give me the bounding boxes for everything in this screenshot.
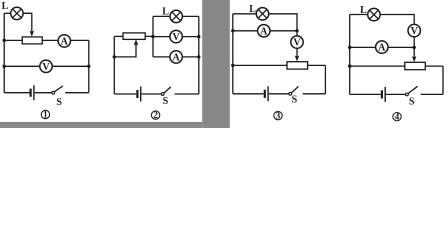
junction inner rail / voltmeter row bbox=[151, 35, 154, 38]
svg-text:2: 2 bbox=[153, 110, 158, 120]
gray divider band vertical bbox=[202, 0, 230, 128]
ammeter A3 bbox=[258, 25, 270, 38]
wire lamp to slider corner bbox=[23, 13, 32, 31]
outer left rail circuit 2 bbox=[113, 36, 115, 94]
wire left rail to voltmeter V1 bbox=[4, 65, 40, 67]
battery B4 bbox=[382, 87, 385, 102]
wire voltmeter V2 to right rail bbox=[182, 36, 199, 38]
wire left rail to lamp L3 bbox=[233, 13, 256, 15]
voltmeter V3 bbox=[291, 36, 303, 49]
wire top-left from lamp to left rail bbox=[4, 12, 11, 14]
slider arrow of rheostat R4 bbox=[412, 56, 416, 62]
voltmeter V2 bbox=[170, 30, 182, 43]
svg-text:A: A bbox=[260, 26, 268, 37]
wire left rail to rheostat R3 bbox=[233, 64, 287, 66]
junction right rail / ammeter row bbox=[197, 55, 200, 58]
label circled 2 bbox=[151, 110, 159, 120]
svg-text:V: V bbox=[42, 62, 50, 73]
slider arrow of rheostat R3 bbox=[295, 56, 299, 62]
rheostat R3 bbox=[287, 62, 308, 69]
junction left rail / rheostat row bbox=[2, 39, 5, 42]
junction outer rail / slider bbox=[113, 55, 116, 58]
svg-text:3: 3 bbox=[276, 111, 281, 121]
right rail circuit 3 bbox=[324, 65, 326, 93]
wire switch S1 to right rail bbox=[65, 92, 89, 94]
wire bottom left to battery B4 bbox=[350, 93, 381, 95]
svg-text:S: S bbox=[163, 96, 169, 107]
wire rheostat R2 to parallel block bbox=[145, 35, 153, 37]
junction voltmeter/ammeter/slider node bbox=[413, 46, 416, 49]
wire left rail to rheostat R4 bbox=[350, 65, 405, 67]
svg-text:V: V bbox=[411, 26, 419, 37]
left rail circuit 4 bbox=[349, 15, 351, 95]
junction lamp/ammeter/voltmeter node bbox=[295, 29, 298, 32]
right rail circuit 1 bbox=[88, 40, 90, 92]
junction left rail / voltmeter row bbox=[2, 65, 5, 68]
wire battery to switch S1 bbox=[35, 92, 52, 94]
wire switch S3 to right rail bbox=[303, 93, 326, 95]
battery B3 bbox=[265, 86, 268, 101]
left rail circuit 1 bbox=[3, 13, 5, 92]
wire voltmeter V3 to slider arrow bbox=[296, 48, 298, 56]
ammeter A1 bbox=[58, 35, 70, 48]
wire ammeter A1 to right rail bbox=[71, 39, 89, 41]
lamp L1 bbox=[11, 7, 23, 19]
lamp L2 bbox=[170, 10, 182, 22]
wire rheostat R3 to right rail bbox=[308, 64, 326, 66]
switch S2 bbox=[161, 87, 171, 96]
wire left rail to lamp L4 bbox=[350, 14, 368, 16]
svg-text:4: 4 bbox=[395, 112, 400, 122]
wire ammeter A3 to junction bbox=[270, 30, 297, 32]
lamp L3 bbox=[256, 8, 268, 20]
svg-text:V: V bbox=[293, 38, 301, 49]
svg-text:A: A bbox=[61, 37, 69, 48]
svg-text:S: S bbox=[56, 97, 62, 108]
inner left rail circuit 2 bbox=[152, 16, 154, 57]
svg-text:S: S bbox=[409, 96, 415, 107]
wire battery B2 to switch S2 bbox=[142, 93, 162, 95]
gray band bottom-left darker top edge bbox=[0, 122, 202, 123]
slider wire of rheostat R2 bbox=[114, 45, 136, 57]
wire ammeter A4 to junction bbox=[388, 46, 414, 48]
rheostat R4 bbox=[405, 62, 426, 69]
wire rheostat R4 to right rail bbox=[425, 65, 443, 67]
wire lamp L4 to right corner and down to voltmeter V4 bbox=[380, 15, 414, 25]
switch S1 bbox=[52, 86, 63, 94]
wire to ammeter A2 bbox=[153, 56, 170, 58]
wire left rail to lamp L2 bbox=[153, 15, 170, 17]
junction left rail / ammeter row bbox=[348, 46, 351, 49]
wire left rail to ammeter A3 bbox=[233, 30, 258, 32]
wire rheostat R2 left terminal to outer rail bbox=[114, 35, 123, 37]
wire switch S2 to right rail bbox=[175, 93, 199, 95]
wire rheostat R1 to ammeter A1 bbox=[42, 39, 58, 41]
gray band bottom-left bbox=[0, 122, 202, 128]
wire voltmeter V1 to right rail bbox=[52, 65, 89, 67]
wire bottom left to battery B3 bbox=[233, 93, 264, 95]
svg-text:L: L bbox=[2, 1, 9, 12]
wire switch S4 to right rail bbox=[421, 93, 443, 95]
svg-text:A: A bbox=[378, 43, 386, 54]
wire battery B4 to switch S4 bbox=[386, 93, 405, 95]
battery B1 bbox=[31, 85, 34, 100]
label circled 4 bbox=[393, 112, 401, 122]
wire to voltmeter V2 bbox=[153, 36, 170, 38]
svg-text:A: A bbox=[172, 53, 180, 64]
lamp L4 bbox=[368, 8, 380, 20]
wire bottom left to battery bbox=[4, 92, 29, 94]
slider arrow of rheostat R1 bbox=[30, 31, 34, 37]
junction left rail / rheostat row bbox=[231, 64, 234, 67]
battery B2 bbox=[137, 87, 140, 102]
junction left rail / ammeter row bbox=[231, 29, 234, 32]
wire junction to voltmeter V3 bbox=[296, 31, 298, 36]
svg-text:1: 1 bbox=[43, 110, 48, 120]
junction right rail / voltmeter row bbox=[87, 65, 90, 68]
junction left rail / rheostat row bbox=[348, 64, 351, 67]
wire lamp L3 to right corner and down bbox=[269, 14, 297, 31]
right rail circuit 4 bbox=[442, 66, 444, 94]
switch S3 bbox=[289, 86, 299, 95]
svg-text:S: S bbox=[292, 95, 298, 106]
voltmeter V1 bbox=[40, 60, 52, 73]
wire bottom left to battery B2 bbox=[114, 93, 136, 95]
voltmeter V4 bbox=[408, 24, 420, 37]
rheostat R2 bbox=[123, 33, 145, 40]
slider arrow of rheostat R2 bbox=[134, 39, 138, 45]
wire lamp L2 to right rail bbox=[182, 15, 198, 17]
label circled 1 bbox=[41, 110, 49, 120]
rheostat R1 bbox=[22, 37, 42, 44]
wire left rail to ammeter A4 bbox=[350, 46, 376, 48]
wire battery B3 to switch S3 bbox=[269, 93, 289, 95]
ammeter A2 bbox=[170, 51, 182, 64]
right rail circuit 2 bbox=[198, 16, 200, 94]
wire voltmeter V4 down to ammeter row junction bbox=[413, 37, 415, 48]
left rail circuit 3 bbox=[232, 14, 234, 94]
wire left rail to rheostat R1 bbox=[4, 39, 22, 41]
switch S4 bbox=[406, 86, 418, 96]
svg-text:V: V bbox=[172, 32, 180, 43]
slider wire of rheostat R4 bbox=[413, 47, 415, 56]
ammeter A4 bbox=[376, 41, 388, 54]
wire ammeter A2 to right rail bbox=[182, 56, 199, 58]
label circled 3 bbox=[274, 111, 282, 121]
junction right rail / voltmeter row bbox=[197, 35, 200, 38]
